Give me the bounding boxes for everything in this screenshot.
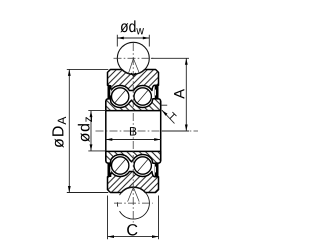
outer ring upper cross-section with gothic-arch track groove (hatched): [108, 70, 159, 91]
centerline of top wire circle: [114, 57, 156, 59]
dimension øD_A (outside diameter, left): [52, 69, 108, 192]
dimension C (outer ring width, bottom): [108, 196, 159, 240]
inner ring lower cross-section (hatched): [106, 151, 161, 163]
seal lower-left: [108, 162, 112, 177]
ball upper-right row: [134, 88, 151, 105]
dimension ød_w (wire diameter, top): [117, 20, 149, 46]
seal upper-left: [108, 85, 112, 100]
seal upper-right: [155, 85, 159, 100]
seal lower-right: [155, 162, 159, 177]
ball upper-left row: [112, 88, 129, 105]
guide wire circle bottom (phantom, broken thin line) with contact-angle lines: [117, 187, 149, 219]
centerline vertical axis: [132, 43, 134, 223]
ball lower-left row: [112, 157, 129, 174]
dimension A (axis to wire centre, right): [151, 58, 189, 131]
centerline of bottom wire circle: [114, 202, 153, 204]
dimension T (shoulder height, right, leader with arrow): [161, 105, 177, 123]
dimension B (inner ring width, centre): [106, 127, 161, 141]
inner ring upper cross-section (hatched): [106, 99, 161, 111]
ball lower-right row: [134, 157, 151, 174]
dimension ød_z (bore diameter, left): [78, 111, 106, 151]
inner ring side faces (bore width B): [106, 101, 161, 161]
outer ring lower cross-section with track groove (hatched): [108, 172, 159, 193]
centerline horizontal bearing axis: [96, 130, 199, 132]
guide wire circle top (diameter d_w) with contact-angle lines and groove vertex: [117, 42, 149, 76]
